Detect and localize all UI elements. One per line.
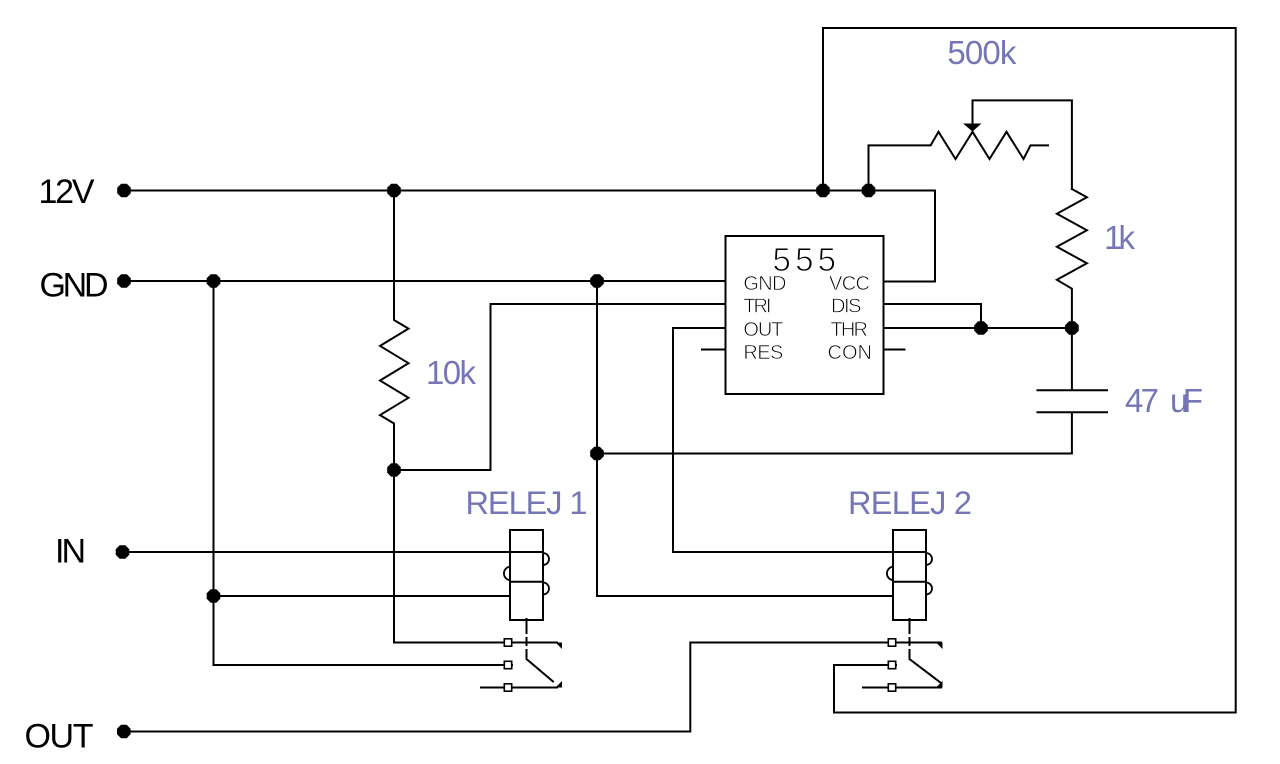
capacitor C1 47uF top lead and plate bbox=[1038, 328, 1108, 390]
svg-text:500k: 500k bbox=[947, 34, 1017, 71]
node 12V terminal bbox=[117, 184, 131, 198]
relay K2 armature bbox=[910, 659, 942, 683]
junction GND rail / relay K1 branch bbox=[207, 274, 221, 288]
relay K2 NC contact arrow bbox=[936, 643, 943, 650]
svg-text:DIS: DIS bbox=[831, 296, 862, 318]
junction GND rail / drop x597 bbox=[590, 274, 604, 288]
relay K1 NC terminal square bbox=[504, 639, 511, 646]
svg-text:OUT: OUT bbox=[25, 718, 94, 756]
relay K2 common terminal square bbox=[888, 661, 895, 668]
junction GND drop / cap return bbox=[590, 447, 604, 461]
relay K1 NO terminal square bbox=[504, 684, 511, 691]
relay K2 NC terminal square bbox=[888, 639, 895, 646]
potentiometer R2 500k body bbox=[869, 132, 1049, 191]
relay K2 coil loop left bbox=[887, 567, 893, 581]
resistor R1 10k bbox=[380, 191, 409, 471]
wire OUT pin to relay K2 coil upper terminal bbox=[673, 328, 893, 552]
relay K1 coil divider lower bbox=[510, 581, 543, 583]
junction 10k bottom / TRI bbox=[387, 463, 401, 477]
wire DIS link bbox=[884, 304, 981, 328]
svg-text:RELEJ 1: RELEJ 1 bbox=[466, 485, 588, 521]
svg-text:47: 47 bbox=[1125, 382, 1159, 419]
relay K2 coil loop right upper bbox=[926, 553, 932, 565]
wire TRI link to 10k bottom bbox=[394, 304, 726, 470]
relay K1 armature bbox=[527, 659, 554, 682]
relay K1 NC contact arrow bbox=[556, 643, 563, 650]
wire THR link bbox=[884, 327, 1072, 329]
wire 10k bottom to relay K1 NC contact bbox=[394, 470, 557, 643]
svg-text:10k: 10k bbox=[426, 354, 477, 391]
svg-text:GND: GND bbox=[743, 273, 786, 295]
svg-text:GND: GND bbox=[40, 267, 109, 305]
node IN terminal bbox=[116, 545, 130, 559]
node OUT terminal bbox=[117, 725, 131, 739]
svg-text:IN: IN bbox=[55, 533, 86, 571]
relay K2 coil loop right lower bbox=[926, 583, 932, 595]
capacitor C1 47uF bottom plate and return wire bbox=[597, 412, 1107, 453]
relay K2 coil divider lower bbox=[893, 581, 926, 583]
wire GND branch to relay K1 common bbox=[214, 281, 513, 665]
relay K1 coil loop left bbox=[504, 567, 510, 581]
junction 12V rail / loop riser bbox=[816, 184, 830, 198]
relay K1 coil loop right upper bbox=[543, 553, 549, 565]
wire top loop from 12V rail to relay K2 common bbox=[823, 28, 1236, 713]
svg-text:1k: 1k bbox=[1104, 219, 1136, 256]
wire RES stub bbox=[702, 349, 726, 351]
junction DIS / THR bbox=[974, 321, 988, 335]
wire CON stub bbox=[884, 349, 905, 351]
svg-text:RELEJ 2: RELEJ 2 bbox=[848, 485, 972, 521]
relay K2 NO terminal square bbox=[888, 684, 895, 691]
relay K1 NO contact arrow bbox=[556, 681, 563, 688]
junction 12V rail / 10k bbox=[387, 184, 401, 198]
svg-text:CON: CON bbox=[828, 342, 873, 364]
relay K1 coil stub bbox=[526, 619, 528, 625]
relay K2 coil stub bbox=[909, 619, 911, 625]
relay K1 linkage bbox=[526, 626, 528, 658]
relay K2 linkage bbox=[909, 626, 911, 658]
relay K2 NO contact arrow bbox=[936, 681, 943, 688]
relay K1 common terminal square bbox=[504, 661, 511, 668]
svg-text:TRI: TRI bbox=[743, 296, 771, 318]
relay K2 NO contact line bbox=[863, 687, 941, 689]
svg-text:12V: 12V bbox=[39, 173, 95, 211]
wire GND branch to relay K1 coil lower terminal bbox=[214, 595, 511, 597]
svg-text:OUT: OUT bbox=[743, 319, 783, 341]
wire OUT net to relay K2 NC contact bbox=[128, 643, 941, 732]
svg-text:THR: THR bbox=[831, 319, 869, 341]
relay K1 coil divider upper bbox=[510, 551, 543, 553]
junction 12V rail / pot lead bbox=[862, 184, 876, 198]
potentiometer R2 wiper to 1k bbox=[973, 100, 1072, 189]
node GND terminal bbox=[117, 274, 131, 288]
junction GND branch / relay K1 coil bbox=[207, 589, 221, 603]
wire 12V rail bbox=[128, 191, 935, 282]
relay K1 coil box bbox=[510, 530, 543, 620]
wire GND rail bbox=[128, 280, 726, 282]
potentiometer R2 wiper arrow bbox=[963, 124, 982, 132]
relay K1 NO contact line bbox=[481, 687, 557, 689]
wire GND drop to cap return and relay K2 coil lower terminal bbox=[597, 281, 893, 596]
junction THR / 1k / cap bbox=[1065, 321, 1079, 335]
relay K2 coil box bbox=[893, 530, 926, 620]
svg-text:uF: uF bbox=[1170, 382, 1203, 419]
IC U1 555 outline bbox=[726, 236, 884, 394]
svg-text:RES: RES bbox=[743, 342, 783, 364]
svg-text:VCC: VCC bbox=[829, 273, 870, 295]
relay K2 coil divider upper bbox=[893, 551, 926, 553]
resistor R3 1k bbox=[1057, 189, 1087, 328]
wire IN to relay K1 coil upper terminal bbox=[127, 551, 510, 553]
relay K1 coil loop right lower bbox=[543, 583, 549, 595]
